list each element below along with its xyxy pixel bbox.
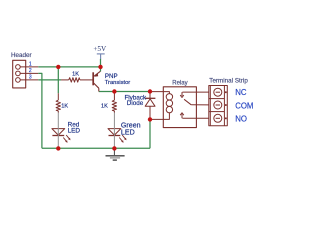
svg-text:Terminal Strip: Terminal Strip [209,78,248,85]
junction dot node F (ground rail / red led) [56,146,60,150]
wire relay coil bottom to ground rail [149,119,151,148]
svg-text:COM: COM [235,101,253,110]
svg-text:Diode: Diode [127,100,144,107]
ground symbol [106,148,125,160]
svg-text:1: 1 [29,62,32,68]
wire red led branch [57,67,59,93]
svg-text:NO: NO [235,115,247,124]
K1 switch [180,92,209,118]
header J1 [13,60,39,88]
relay K1 [163,87,196,128]
junction dot node E (flyback bottom / coil bottom / ground riser) [148,117,152,121]
terminal strip X1 [209,86,228,126]
svg-text:Relay: Relay [172,80,187,86]
resistor R2 1K vertical (red led) [56,93,60,112]
svg-text:3: 3 [29,75,32,81]
junction dot node B (+5V / emitter) [98,65,102,69]
junction dot node C (collector rail / green led tap) [112,89,116,93]
svg-text:1K: 1K [72,71,79,77]
junction dot node A (+5V rail / red led tap) [56,65,60,69]
resistor R3 1K vertical (green led) [112,92,116,113]
svg-text:Transistor: Transistor [105,80,131,86]
wire pin3 to base resistor [38,79,61,81]
D2 arrowheads [65,140,67,143]
svg-text:LED: LED [121,129,135,137]
flyback diode D1 [145,92,156,120]
Q1 emitter arrowhead [94,73,98,77]
svg-text:+5V: +5V [93,45,107,53]
Q1 emitter wire stub [100,67,102,72]
wire ground rail [42,147,150,149]
svg-text:LED: LED [68,128,81,135]
resistor R1 1K horizontal (base) [61,78,93,82]
wire pin1 to +5V rail [38,66,100,68]
D2 cathode lead [57,113,59,149]
+5V wire stub [100,59,102,67]
svg-text:PNP: PNP [105,73,118,80]
svg-text:2: 2 [29,68,32,74]
X1 pin squares [225,91,227,119]
X1 screw 3 [214,114,222,122]
D3 cathode lead [113,113,115,149]
LED D3 green [108,129,125,142]
transistor Q1 PNP [93,71,100,91]
junction dot node G (ground rail / green led / gnd) [112,146,116,150]
svg-text:1K: 1K [101,103,108,109]
wire collector rail [99,91,150,93]
junction dot node D (rail / flyback top / relay coil) [148,89,152,93]
svg-text:NC: NC [235,88,247,97]
svg-text:1K: 1K [61,103,68,109]
wire pin2 down to ground rail [38,73,42,148]
D3 arrowheads [121,140,123,143]
X1 screw 2 [214,101,222,109]
LED D2 red [52,129,69,142]
+5V supply symbol [97,54,105,59]
svg-text:Header: Header [11,52,32,59]
K1 coil [150,92,173,120]
X1 screw 1 [214,88,222,96]
